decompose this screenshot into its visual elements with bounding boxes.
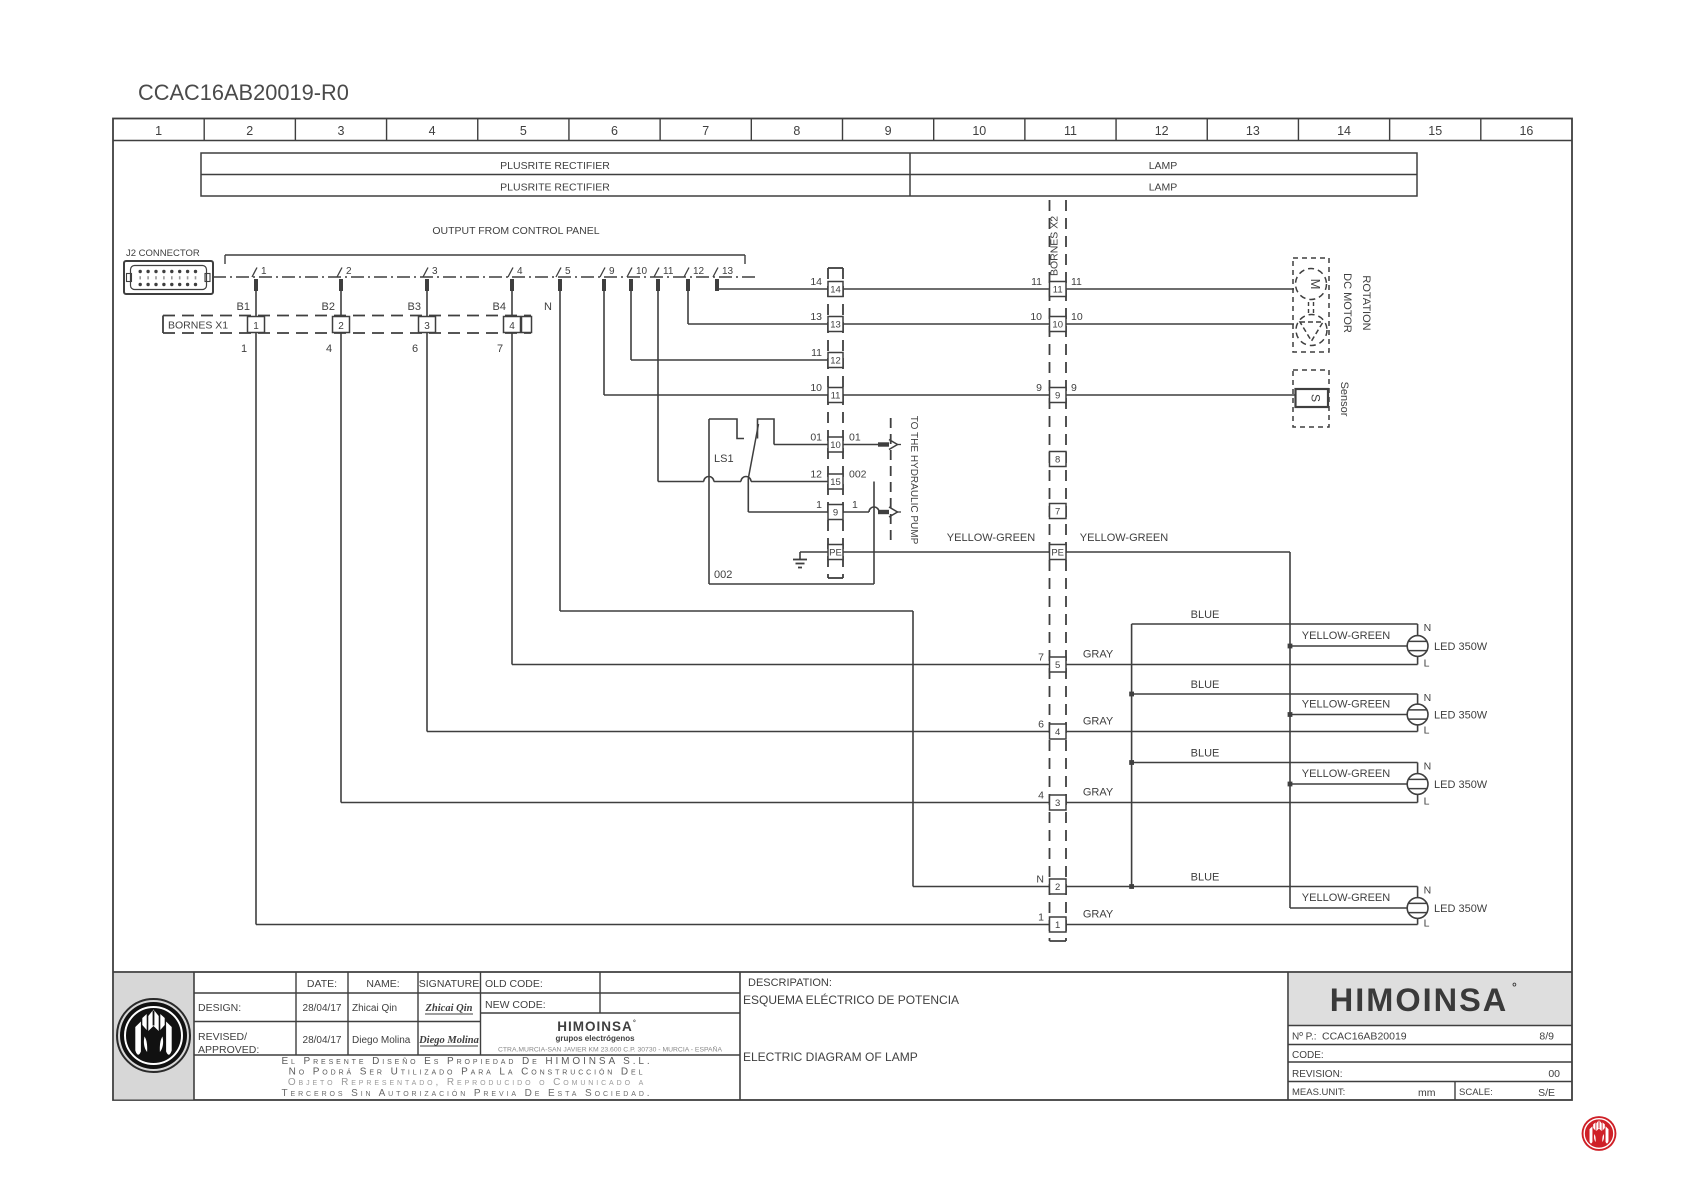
wire B3 row to X2-4: [427, 731, 1049, 733]
svg-text:BORNES X2: BORNES X2: [1049, 216, 1061, 276]
svg-text:5: 5: [520, 124, 527, 138]
wire mid-PE to X2-PE (yellow-green): [843, 551, 1049, 553]
svg-text:DESIGN:: DESIGN:: [198, 1002, 241, 1014]
svg-text:1: 1: [253, 321, 259, 332]
svg-text:L: L: [1424, 796, 1430, 808]
svg-text:El Presente Diseño Es Propieda: El Presente Diseño Es Propiedad De HIMOI…: [281, 1056, 652, 1067]
svg-text:12: 12: [830, 356, 841, 367]
svg-text:3: 3: [424, 321, 430, 332]
wire LS1 contact to terminal 9: [748, 511, 827, 513]
svg-text:15: 15: [1428, 124, 1442, 138]
terminal mid-12: [828, 353, 843, 368]
svg-text:6: 6: [611, 124, 618, 138]
svg-text:2: 2: [246, 124, 253, 138]
wire PE to earth: [800, 551, 828, 553]
svg-text:6: 6: [412, 343, 418, 355]
wire B1 row to X2-1: [256, 924, 1049, 926]
svg-text:12: 12: [1155, 124, 1169, 138]
svg-text:28/04/17: 28/04/17: [303, 1003, 342, 1014]
wire 14-11 motor upper: [843, 288, 1049, 290]
svg-text:BLUE: BLUE: [1191, 609, 1220, 621]
svg-text:J2 CONNECTOR: J2 CONNECTOR: [126, 248, 200, 259]
svg-text:LED 350W: LED 350W: [1434, 903, 1488, 915]
blue neutral bus vertical: [1131, 624, 1133, 887]
svg-text:2: 2: [338, 321, 344, 332]
lamp L1 bulb symbol: [1407, 636, 1428, 657]
terminal X2-11: [1050, 282, 1067, 297]
motor pump circle with triangle: [1296, 315, 1327, 346]
svg-text:NEW CODE:: NEW CODE:: [485, 999, 546, 1011]
wire pin10 to terminal 12: [631, 359, 828, 361]
logo cell background: [114, 973, 194, 1100]
svg-text:10: 10: [1071, 311, 1083, 323]
svg-text:°: °: [1512, 980, 1517, 994]
wire B4 row to X2-5: [512, 664, 1049, 666]
svg-text:CCAC16AB20019: CCAC16AB20019: [1322, 1031, 1407, 1043]
terminal X2-9: [1050, 388, 1067, 403]
junction blue bus L3: [1129, 760, 1134, 765]
wire pin4 down: [511, 279, 513, 665]
connector J2 body: [124, 261, 213, 294]
motor coupling: [1308, 302, 1310, 313]
svg-text:4: 4: [326, 343, 332, 355]
svg-text:B4: B4: [493, 301, 506, 313]
svg-text:PE: PE: [1051, 548, 1064, 559]
svg-text:GRAY: GRAY: [1083, 649, 1114, 661]
svg-text:10: 10: [1052, 320, 1063, 331]
lamp L3 yellow-green wire: [1290, 783, 1407, 785]
svg-text:MEAS.UNIT:: MEAS.UNIT:: [1292, 1087, 1345, 1098]
lamp L4 bulb symbol: [1407, 898, 1428, 919]
svg-text:4: 4: [509, 321, 515, 332]
terminal X1-1: [248, 317, 265, 333]
junction blue bus lamp4: [1129, 884, 1134, 889]
svg-text:No Podrá Ser Utilizado Para La: No Podrá Ser Utilizado Para La Construcc…: [289, 1067, 646, 1078]
svg-text:1: 1: [816, 499, 822, 511]
svg-text:CCAC16AB20019-R0: CCAC16AB20019-R0: [138, 80, 349, 105]
output-from-control-panel bracket: [225, 254, 745, 256]
switch LS1 moving contact: [748, 424, 758, 479]
svg-text:DATE:: DATE:: [307, 978, 337, 990]
right info block: [1287, 972, 1289, 1101]
wire pin11 to terminal 15 (with jumps): [658, 481, 704, 483]
svg-text:9: 9: [1055, 391, 1060, 402]
wire pin11 down: [657, 279, 659, 482]
lamp L2 gray wire: [1066, 731, 1418, 733]
svg-text:ELECTRIC DIAGRAM OF LAMP: ELECTRIC DIAGRAM OF LAMP: [743, 1050, 918, 1064]
banner boxes PLUSRITE RECTIFIER / LAMP: [201, 153, 1417, 196]
svg-text:N: N: [1036, 874, 1044, 886]
svg-text:2: 2: [1055, 882, 1060, 893]
svg-text:APPROVED:: APPROVED:: [198, 1044, 259, 1056]
lamp L2 bulb symbol: [1407, 704, 1428, 725]
svg-text:002: 002: [714, 569, 732, 581]
svg-text:ESQUEMA ELÉCTRICO DE POTENCIA: ESQUEMA ELÉCTRICO DE POTENCIA: [743, 992, 959, 1007]
svg-text:LS1: LS1: [714, 453, 734, 465]
terminal mid-9: [828, 505, 843, 520]
svg-text:9: 9: [1036, 382, 1042, 394]
junction yg bus L1: [1288, 644, 1293, 649]
svg-text:15: 15: [830, 477, 841, 488]
wire B2 row to X2-3: [341, 802, 1049, 804]
svg-text:01: 01: [849, 432, 861, 444]
switch LS1 left leg: [708, 419, 710, 584]
svg-text:14: 14: [830, 285, 841, 296]
svg-text:9: 9: [833, 508, 838, 519]
svg-text:1: 1: [261, 266, 267, 277]
svg-text:S/E: S/E: [1538, 1087, 1555, 1099]
svg-text:11: 11: [1071, 276, 1082, 288]
svg-text:GRAY: GRAY: [1083, 909, 1114, 921]
terminal mid-11: [828, 388, 843, 403]
svg-text:°: °: [633, 1019, 636, 1027]
svg-text:DESCRIPATION:: DESCRIPATION:: [748, 977, 832, 989]
X1 end cap box: [522, 317, 532, 333]
svg-text:12: 12: [693, 266, 705, 277]
svg-text:1: 1: [241, 343, 247, 355]
title block grid: [113, 971, 1572, 973]
lamp L1 yellow-green wire: [1290, 645, 1407, 647]
terminal X2-7: [1050, 504, 1067, 519]
terminal X1-3: [419, 317, 436, 333]
svg-text:11: 11: [831, 391, 841, 402]
svg-text:2: 2: [346, 266, 352, 277]
svg-text:LED 350W: LED 350W: [1434, 779, 1488, 791]
lamp L1 gray wire: [1066, 664, 1418, 666]
svg-text:10: 10: [830, 440, 841, 451]
wire pin10 down: [630, 279, 632, 360]
wire pin12 down: [687, 279, 689, 324]
terminal X2-3: [1050, 795, 1067, 810]
svg-text:YELLOW-GREEN: YELLOW-GREEN: [1302, 630, 1390, 642]
svg-text:OUTPUT FROM CONTROL PANEL: OUTPUT FROM CONTROL PANEL: [432, 225, 599, 237]
svg-text:SCALE:: SCALE:: [1459, 1087, 1493, 1098]
svg-text:Terceros Sin Autorización Prev: Terceros Sin Autorización Previa De Esta…: [282, 1088, 653, 1099]
wire pin2 down: [340, 279, 342, 803]
svg-text:LED 350W: LED 350W: [1434, 710, 1488, 722]
HIMOINSA red roundel (page corner): [1582, 1116, 1617, 1151]
svg-text:BORNES X1: BORNES X1: [168, 320, 228, 332]
terminal X2-10: [1050, 317, 1067, 332]
svg-text:CTRA.MURCIA-SAN JAVIER KM 23.6: CTRA.MURCIA-SAN JAVIER KM 23.600 C.P. 30…: [498, 1045, 722, 1054]
svg-text:Nº P.:: Nº P.:: [1292, 1032, 1317, 1043]
svg-text:ROTATION: ROTATION: [1360, 275, 1372, 330]
svg-text:YELLOW-GREEN: YELLOW-GREEN: [1080, 532, 1168, 544]
svg-text:BLUE: BLUE: [1191, 748, 1220, 760]
mid terminal strip dashed band: [827, 268, 829, 578]
svg-text:LED 350W: LED 350W: [1434, 641, 1488, 653]
svg-text:SIGNATURE: SIGNATURE: [419, 978, 479, 990]
wire terminal 10 to pump arrow: [843, 444, 878, 446]
terminal mid-14: [828, 282, 843, 297]
svg-text:B3: B3: [408, 301, 421, 313]
svg-text:1: 1: [1038, 912, 1044, 924]
terminal X2-4: [1050, 724, 1067, 739]
svg-text:mm: mm: [1418, 1087, 1436, 1099]
control dash-dot bus line: [213, 276, 755, 278]
switch LS1 fixed contacts: [709, 419, 744, 439]
svg-text:8: 8: [1055, 455, 1060, 466]
terminal X2-1: [1050, 917, 1067, 932]
terminal strip BORNES X1: [163, 315, 531, 317]
wire pin13 down: [716, 279, 718, 289]
svg-text:REVISION:: REVISION:: [1292, 1069, 1343, 1080]
svg-text:B2: B2: [322, 301, 335, 313]
terminal mid-13: [828, 317, 843, 332]
svg-text:Zhicai Qin: Zhicai Qin: [352, 1003, 397, 1014]
svg-text:M: M: [1308, 279, 1323, 290]
svg-text:4: 4: [1038, 790, 1044, 802]
svg-text:Sensor: Sensor: [1338, 382, 1350, 417]
lamp L1 blue wire: [1132, 623, 1418, 625]
svg-text:13: 13: [1246, 124, 1260, 138]
svg-text:28/04/17: 28/04/17: [303, 1035, 342, 1046]
svg-text:L: L: [1424, 725, 1430, 737]
motor dashed enclosure: [1293, 258, 1329, 352]
svg-text:5: 5: [1055, 660, 1060, 671]
svg-text:N: N: [1424, 761, 1432, 773]
svg-text:3: 3: [337, 124, 344, 138]
svg-text:10: 10: [810, 382, 822, 394]
svg-text:HIMOINSA: HIMOINSA: [557, 1019, 633, 1034]
terminal mid-PE: [828, 545, 843, 560]
junction yg bus L3: [1288, 782, 1293, 787]
svg-text:13: 13: [830, 320, 841, 331]
wire 13-10 motor lower: [843, 323, 1049, 325]
svg-text:DC MOTOR: DC MOTOR: [1341, 273, 1353, 333]
svg-text:1: 1: [155, 124, 162, 138]
svg-text:GRAY: GRAY: [1083, 787, 1114, 799]
svg-text:002: 002: [849, 469, 867, 481]
wire pin5 down (N): [559, 279, 561, 611]
svg-text:1: 1: [1055, 920, 1060, 931]
svg-text:14: 14: [1337, 124, 1351, 138]
svg-text:6: 6: [1038, 719, 1044, 731]
svg-text:8: 8: [793, 124, 800, 138]
svg-text:L: L: [1424, 918, 1430, 930]
terminal mid-15: [828, 474, 843, 489]
svg-text:11: 11: [1053, 285, 1063, 296]
terminal X2-2: [1050, 879, 1067, 894]
svg-text:YELLOW-GREEN: YELLOW-GREEN: [947, 532, 1035, 544]
wire pin13 to terminal 14: [717, 288, 828, 290]
svg-text:NAME:: NAME:: [366, 978, 399, 990]
002 loop rectangle: [873, 482, 875, 585]
lamp L2 yellow-green wire: [1290, 714, 1407, 716]
svg-text:10: 10: [972, 124, 986, 138]
svg-text:BLUE: BLUE: [1191, 872, 1220, 884]
wire N from pin5: [560, 610, 913, 612]
svg-text:10: 10: [636, 266, 648, 277]
svg-text:LAMP: LAMP: [1149, 160, 1178, 172]
svg-text:14: 14: [810, 276, 822, 288]
svg-text:N: N: [544, 301, 552, 313]
svg-text:8/9: 8/9: [1539, 1031, 1554, 1043]
junction yg bus L2: [1288, 712, 1293, 717]
lamp L3 blue wire: [1132, 762, 1418, 764]
svg-text:PLUSRITE RECTIFIER: PLUSRITE RECTIFIER: [500, 160, 610, 172]
terminal X2-PE: [1050, 545, 1067, 560]
sensor S box: [1296, 389, 1329, 407]
svg-text:11: 11: [1064, 124, 1077, 138]
svg-text:HIMOINSA: HIMOINSA: [1330, 982, 1509, 1018]
svg-text:9: 9: [609, 266, 615, 277]
svg-text:N: N: [1424, 622, 1432, 634]
junction blue bus L2: [1129, 692, 1134, 697]
svg-text:Objeto Representado, Reproduci: Objeto Representado, Reproducido o Comun…: [288, 1077, 646, 1088]
svg-text:LAMP: LAMP: [1149, 182, 1178, 194]
lamp L3 gray wire: [1066, 802, 1418, 804]
lamp L3 bulb symbol: [1407, 774, 1428, 795]
terminal X2-5: [1050, 657, 1067, 672]
svg-text:Diego Molina: Diego Molina: [418, 1035, 479, 1046]
sensor dashed enclosure: [1293, 370, 1329, 427]
svg-text:TO THE HYDRAULIC PUMP: TO THE HYDRAULIC PUMP: [908, 416, 919, 545]
lamp L4 gray wire: [1066, 924, 1418, 926]
svg-text:11: 11: [811, 347, 822, 359]
svg-text:OLD CODE:: OLD CODE:: [485, 978, 543, 990]
svg-text:7: 7: [702, 124, 709, 138]
svg-text:Diego Molina: Diego Molina: [352, 1035, 411, 1046]
svg-text:1: 1: [852, 499, 858, 511]
wire pin9 to terminal 11: [604, 394, 828, 396]
wire X2-PE to lamp earth bus: [1066, 551, 1290, 553]
svg-text:7: 7: [1038, 652, 1044, 664]
svg-text:REVISED/: REVISED/: [198, 1031, 247, 1043]
svg-text:7: 7: [1055, 507, 1060, 518]
svg-text:7: 7: [497, 343, 503, 355]
svg-text:4: 4: [429, 124, 436, 138]
svg-text:PE: PE: [829, 548, 842, 559]
motor M circle: [1296, 269, 1327, 300]
wire pin9 down: [603, 279, 605, 395]
svg-text:13: 13: [810, 311, 822, 323]
svg-text:3: 3: [432, 266, 438, 277]
svg-text:10: 10: [1030, 311, 1042, 323]
svg-text:B1: B1: [237, 301, 250, 313]
svg-text:grupos electrógenos: grupos electrógenos: [555, 1034, 635, 1043]
svg-text:N: N: [1424, 885, 1432, 897]
svg-text:9: 9: [1071, 382, 1077, 394]
svg-text:CODE:: CODE:: [1292, 1050, 1324, 1061]
wire pin3 down: [426, 279, 428, 732]
terminal X1-4: [504, 317, 521, 333]
terminal X2-8: [1050, 452, 1067, 467]
lamp L4 blue wire: [1066, 886, 1418, 888]
terminal X1-2: [333, 317, 350, 333]
svg-text:L: L: [1424, 658, 1430, 670]
svg-text:5: 5: [565, 266, 571, 277]
yellow-green earth bus vertical: [1289, 552, 1291, 908]
svg-text:YELLOW-GREEN: YELLOW-GREEN: [1302, 699, 1390, 711]
svg-text:9: 9: [885, 124, 892, 138]
svg-text:01: 01: [810, 432, 822, 444]
to-the-hydraulic-pump dashed line: [890, 418, 892, 542]
svg-text:S: S: [1309, 394, 1323, 402]
lamp L4 yellow-green wire: [1290, 907, 1407, 909]
svg-text:3: 3: [1055, 798, 1060, 809]
svg-text:Zhicai Qin: Zhicai Qin: [425, 1003, 473, 1014]
HIMOINSA emblem logo (title block): [117, 999, 190, 1072]
svg-text:PLUSRITE RECTIFIER: PLUSRITE RECTIFIER: [500, 182, 610, 194]
svg-text:00: 00: [1548, 1068, 1560, 1080]
svg-text:16: 16: [1519, 124, 1533, 138]
wire 11-9 sensor: [843, 394, 1049, 396]
wire terminal 9 to pump arrow (jump over loop): [843, 511, 869, 513]
connector pin ticks and numbers: [252, 268, 257, 278]
wire pin12 to terminal 13: [688, 323, 828, 325]
svg-text:4: 4: [1055, 727, 1060, 738]
terminal mid-10: [828, 437, 843, 452]
wire LS1 to terminal 10: [774, 444, 828, 446]
svg-text:N: N: [1424, 692, 1432, 704]
ground symbol: [793, 559, 807, 561]
svg-text:YELLOW-GREEN: YELLOW-GREEN: [1302, 768, 1390, 780]
svg-text:13: 13: [722, 266, 734, 277]
svg-text:11: 11: [663, 266, 674, 277]
lamp L2 blue wire: [1132, 693, 1418, 695]
svg-text:11: 11: [1031, 276, 1042, 288]
terminal strip BORNES X2 dashed band: [1049, 200, 1051, 941]
wire pin1 down: [255, 279, 257, 925]
svg-text:BLUE: BLUE: [1191, 679, 1220, 691]
svg-text:4: 4: [517, 266, 523, 277]
svg-text:GRAY: GRAY: [1083, 716, 1114, 728]
frame border: [113, 119, 1572, 1101]
svg-text:12: 12: [810, 469, 822, 481]
svg-text:YELLOW-GREEN: YELLOW-GREEN: [1302, 892, 1390, 904]
